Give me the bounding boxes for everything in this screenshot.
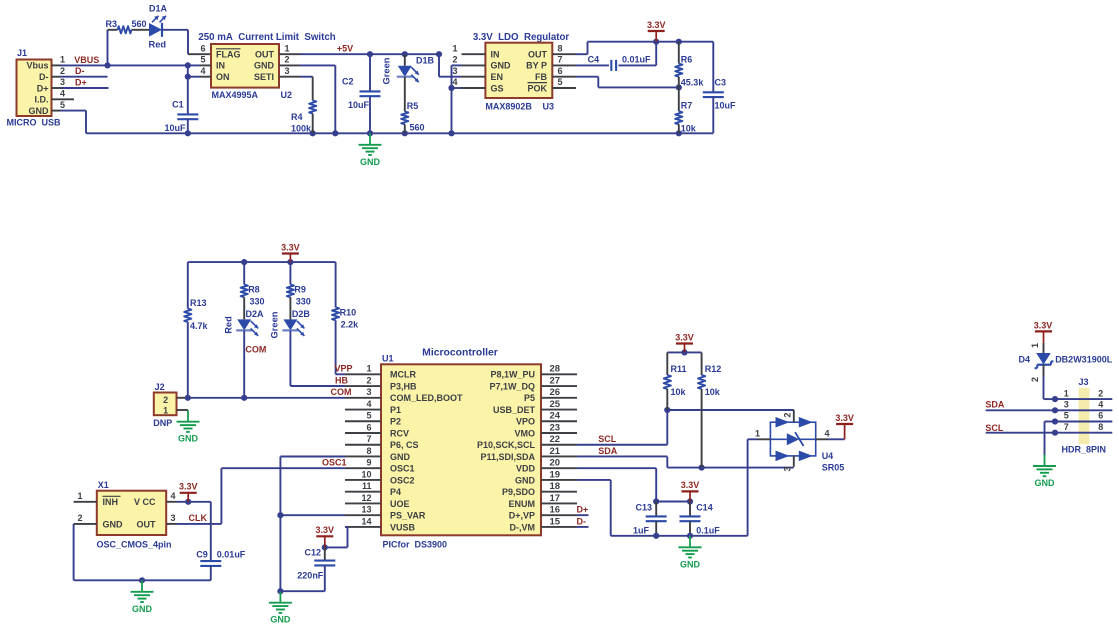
wire U3.FB to R6/R7 divider: [576, 77, 682, 91]
svg-text:2: 2: [60, 66, 65, 76]
TVS diode array U4 SR05: [755, 410, 844, 472]
svg-text:7: 7: [557, 55, 562, 65]
svg-text:11: 11: [362, 481, 372, 491]
capacitor C9 0.01uF: [196, 502, 246, 581]
svg-text:13: 13: [361, 505, 371, 515]
capacitor C1 10uF: [164, 100, 198, 134]
power 3.3V at LDO output: [647, 20, 666, 42]
svg-text:C1: C1: [172, 100, 184, 110]
wire D2B cathode to U1 pin2: [290, 331, 345, 387]
wire D- net: [61, 76, 108, 78]
svg-text:BY P: BY P: [526, 61, 547, 71]
svg-text:5: 5: [200, 55, 205, 65]
wire R10 to U1 pin1: [336, 373, 345, 375]
svg-text:12: 12: [361, 493, 371, 503]
svg-text:5: 5: [1064, 411, 1069, 421]
title Microcontroller: [422, 348, 498, 359]
svg-text:3: 3: [284, 66, 289, 76]
svg-text:R6: R6: [681, 55, 693, 65]
svg-text:560: 560: [410, 123, 425, 133]
resistor R5 560: [401, 101, 424, 133]
wire D+ net: [61, 87, 109, 89]
svg-text:26: 26: [550, 387, 561, 398]
net label SDA: [598, 446, 618, 456]
svg-text:28: 28: [550, 364, 561, 375]
svg-text:D2A: D2A: [246, 309, 265, 319]
svg-text:7: 7: [366, 434, 371, 444]
wire SDA to J3 pin3: [986, 409, 1055, 411]
svg-text:P9,SDO: P9,SDO: [502, 487, 535, 497]
svg-text:DNP: DNP: [153, 418, 172, 428]
svg-text:D1A: D1A: [149, 4, 168, 14]
svg-text:MAX4995A: MAX4995A: [212, 90, 259, 100]
wire U4 pin1 to GND rail: [748, 439, 758, 536]
svg-text:2.2k: 2.2k: [341, 320, 360, 330]
svg-text:ON: ON: [216, 72, 230, 82]
svg-text:3: 3: [60, 77, 65, 87]
svg-text:C12: C12: [304, 547, 321, 557]
svg-text:5: 5: [60, 100, 65, 110]
svg-text:SCL: SCL: [598, 434, 617, 444]
svg-text:22: 22: [550, 434, 561, 445]
svg-text:1: 1: [60, 55, 65, 65]
svg-text:6: 6: [557, 66, 562, 76]
capacitor C4 0.01uF: [588, 55, 651, 71]
wire SCL to J3 pin7: [986, 432, 1055, 434]
power 3.3V at D4: [1034, 321, 1053, 343]
net label SCL at J3: [985, 423, 1004, 433]
svg-text:C4: C4: [588, 55, 600, 65]
svg-text:10k: 10k: [671, 387, 687, 397]
wire U4 pin4 to 3.3V: [828, 438, 845, 440]
svg-text:4: 4: [1098, 400, 1103, 410]
svg-text:19: 19: [550, 469, 561, 480]
svg-text:3.3V: 3.3V: [681, 480, 700, 490]
svg-text:C3: C3: [715, 77, 727, 87]
svg-text:MICRO USB: MICRO USB: [7, 118, 62, 128]
svg-text:I.D.: I.D.: [34, 95, 48, 105]
svg-text:6: 6: [1098, 411, 1103, 421]
svg-text:OUT: OUT: [528, 50, 548, 60]
wire COM rail J2.2 to U1 pin3: [185, 395, 345, 401]
wire D1B to R5: [404, 77, 406, 112]
svg-text:J3: J3: [1078, 377, 1088, 387]
wire IN/ON junction vertical to C1: [185, 65, 200, 114]
svg-text:INH: INH: [103, 497, 119, 507]
svg-text:SETI: SETI: [254, 72, 274, 82]
svg-text:1: 1: [77, 491, 82, 501]
svg-text:J2: J2: [155, 382, 165, 392]
svg-text:Green: Green: [270, 311, 280, 338]
wire U1 pin13 PS_VAR: [280, 514, 345, 516]
svg-text:330: 330: [250, 296, 265, 306]
svg-text:U1: U1: [382, 354, 394, 364]
svg-text:P1: P1: [390, 405, 401, 415]
svg-text:1uF: 1uF: [633, 526, 650, 536]
wire U1.VUSB pin14 to C12: [322, 527, 348, 551]
svg-text:23: 23: [550, 422, 561, 433]
svg-text:OSC1: OSC1: [390, 464, 415, 474]
svg-text:C9: C9: [196, 549, 208, 559]
svg-text:1: 1: [1064, 388, 1069, 398]
svg-text:VUSB: VUSB: [390, 522, 416, 532]
wire U3.GND and U3.GS to rail: [448, 65, 461, 136]
svg-text:VPO: VPO: [516, 417, 535, 427]
LED D2B Green: [270, 297, 311, 338]
svg-text:ENUM: ENUM: [509, 499, 536, 509]
svg-text:UOE: UOE: [390, 499, 410, 509]
svg-text:P7,1W_DQ: P7,1W_DQ: [489, 381, 535, 391]
svg-text:15: 15: [550, 516, 561, 527]
svg-text:COM: COM: [245, 344, 266, 354]
svg-text:1: 1: [163, 406, 168, 416]
svg-text:3.3V: 3.3V: [647, 20, 666, 30]
svg-text:D+: D+: [37, 83, 49, 93]
svg-text:Vbus: Vbus: [26, 61, 48, 71]
wire X1.GND to bottom rail: [74, 524, 211, 584]
resistor R10 2.2k: [332, 262, 359, 374]
svg-text:P5: P5: [524, 393, 535, 403]
svg-text:8: 8: [557, 43, 562, 53]
svg-text:OUT: OUT: [255, 50, 275, 60]
LED D1A Red: [149, 4, 168, 50]
svg-text:Red: Red: [224, 316, 234, 334]
svg-text:P4: P4: [390, 487, 401, 497]
svg-text:4: 4: [366, 399, 371, 409]
svg-text:45.3k: 45.3k: [681, 77, 705, 87]
power 3.3V at pullups: [675, 332, 694, 352]
svg-text:GND: GND: [390, 452, 411, 462]
svg-text:P3,HB: P3,HB: [390, 381, 417, 391]
svg-text:2: 2: [1098, 388, 1103, 398]
resistor R6 45.3k: [675, 42, 704, 88]
net label D+: [75, 78, 87, 88]
microcontroller U1 PICfor DS3900: [345, 354, 577, 550]
wire U2.GND to rail: [300, 65, 336, 133]
svg-text:3: 3: [783, 466, 793, 471]
svg-text:3.3V: 3.3V: [179, 482, 198, 492]
svg-text:2: 2: [163, 395, 168, 405]
svg-text:GND: GND: [132, 604, 153, 614]
ground below X1: [131, 580, 154, 614]
svg-text:+5V: +5V: [337, 44, 353, 54]
svg-text:P8,1W_PU: P8,1W_PU: [490, 370, 535, 380]
svg-text:4: 4: [824, 429, 829, 439]
svg-text:4: 4: [200, 66, 205, 76]
svg-text:VMO: VMO: [514, 428, 535, 438]
svg-text:10uF: 10uF: [164, 123, 186, 133]
wire U1.VDD pin20 to C13: [577, 468, 656, 501]
net label COM: [331, 387, 352, 397]
svg-text:IN: IN: [216, 61, 225, 71]
svg-text:3: 3: [1064, 400, 1069, 410]
resistor R8 330: [241, 262, 265, 306]
svg-text:R12: R12: [705, 364, 722, 374]
svg-text:Green: Green: [382, 57, 392, 84]
svg-text:2: 2: [284, 55, 289, 65]
net label SDA at J3: [985, 400, 1005, 410]
svg-text:Microcontroller: Microcontroller: [422, 348, 498, 359]
svg-text:PS_VAR: PS_VAR: [390, 511, 426, 521]
svg-text:8: 8: [366, 446, 371, 456]
svg-text:OUT: OUT: [137, 519, 157, 529]
svg-text:24: 24: [550, 411, 561, 422]
svg-text:R7: R7: [681, 101, 693, 111]
svg-text:MCLR: MCLR: [390, 370, 416, 380]
svg-text:0.1uF: 0.1uF: [696, 526, 720, 536]
resistor R9 330: [287, 262, 311, 306]
svg-text:1: 1: [755, 429, 760, 439]
svg-text:CLK: CLK: [189, 513, 208, 523]
svg-text:16: 16: [550, 505, 561, 516]
svg-text:14: 14: [361, 516, 371, 526]
svg-text:USB_DET: USB_DET: [493, 405, 536, 415]
svg-text:GND: GND: [270, 615, 291, 625]
svg-text:17: 17: [550, 493, 561, 504]
svg-text:GND: GND: [515, 475, 536, 485]
svg-text:MAX8902B: MAX8902B: [485, 101, 532, 111]
power 3.3V at C14: [681, 480, 700, 501]
svg-text:D2B: D2B: [292, 309, 311, 319]
svg-text:27: 27: [550, 375, 561, 386]
svg-text:D+,VP: D+,VP: [509, 511, 535, 521]
net label D-: [75, 66, 85, 76]
svg-text:VBUS: VBUS: [74, 55, 99, 65]
svg-text:0.01uF: 0.01uF: [217, 549, 246, 559]
svg-text:D+: D+: [75, 78, 87, 88]
svg-text:P6, CS: P6, CS: [390, 440, 419, 450]
svg-text:1: 1: [366, 364, 371, 374]
wire D2A cathode to COM rail: [243, 331, 245, 398]
svg-text:2: 2: [452, 55, 457, 65]
svg-text:5: 5: [557, 77, 562, 87]
svg-text:D-: D-: [577, 516, 587, 526]
svg-text:C13: C13: [635, 502, 652, 512]
header J3 HDR_8PIN: [1055, 377, 1112, 454]
svg-text:1: 1: [284, 43, 289, 53]
svg-text:RCV: RCV: [390, 428, 409, 438]
net label CLK: [189, 513, 208, 523]
svg-text:2: 2: [783, 412, 793, 417]
ground below C2: [359, 133, 382, 167]
svg-text:J1: J1: [17, 48, 27, 58]
wire C4 to 3.3V rail: [619, 42, 657, 66]
svg-text:HB: HB: [335, 375, 348, 385]
net label COM at D2A: [245, 344, 266, 354]
svg-text:D+: D+: [577, 505, 589, 515]
svg-text:OSC2: OSC2: [390, 475, 415, 485]
connector J1 MICRO USB: [7, 48, 75, 128]
svg-text:1: 1: [1030, 343, 1040, 348]
svg-text:10uF: 10uF: [348, 100, 370, 110]
svg-text:VPP: VPP: [334, 364, 352, 374]
svg-text:3: 3: [170, 513, 175, 523]
net label OSC1: [322, 458, 347, 468]
svg-text:100k: 100k: [291, 124, 312, 134]
wire 3.3V rail above R11 R12: [667, 349, 701, 355]
svg-text:FLAG: FLAG: [216, 50, 241, 60]
svg-text:U4: U4: [822, 451, 834, 461]
diode D4 DB2W31900L: [1018, 343, 1112, 382]
wire U2.SETI to R4: [300, 77, 313, 101]
svg-text:20: 20: [550, 458, 561, 469]
capacitor C14 0.1uF: [680, 502, 721, 536]
svg-text:P10,SCK,SCL: P10,SCK,SCL: [477, 440, 536, 450]
svg-text:Red: Red: [149, 40, 167, 50]
svg-text:POK: POK: [527, 83, 547, 93]
capacitor C13 1uF: [633, 502, 667, 536]
svg-text:3.3V: 3.3V: [281, 242, 300, 252]
net label VPP: [334, 364, 352, 374]
wire U1.GND pin8 to ground column: [277, 457, 345, 595]
svg-text:X1: X1: [98, 480, 109, 490]
wire J3 pin5 to ground: [1045, 422, 1056, 457]
svg-text:2: 2: [1030, 377, 1040, 382]
svg-text:C2: C2: [342, 77, 354, 87]
power 3.3V at VUSB: [316, 525, 335, 547]
svg-text:3.3V: 3.3V: [1034, 321, 1053, 331]
svg-text:COM: COM: [331, 387, 352, 397]
svg-text:GND: GND: [178, 434, 199, 444]
svg-text:D-: D-: [39, 72, 49, 82]
junction dots at J3 left pins: [1052, 407, 1058, 436]
wire +5V rail U2.OUT to U3.IN: [300, 51, 462, 77]
svg-text:10uF: 10uF: [715, 101, 737, 111]
svg-text:6: 6: [366, 422, 371, 432]
svg-text:SCL: SCL: [985, 423, 1004, 433]
svg-text:3.3V: 3.3V: [835, 413, 854, 423]
svg-text:HDR_8PIN: HDR_8PIN: [1062, 444, 1107, 454]
net label HB: [335, 375, 348, 385]
wire U3.BYP to C4: [576, 64, 609, 66]
svg-text:OSC_CMOS_4pin: OSC_CMOS_4pin: [97, 540, 172, 550]
svg-text:3.3V LDO Regulator: 3.3V LDO Regulator: [473, 32, 570, 43]
svg-text:DB2W31900L: DB2W31900L: [1055, 354, 1113, 364]
svg-text:SR05: SR05: [822, 462, 845, 472]
svg-text:250 mA Current Limit Switch: 250 mA Current Limit Switch: [198, 32, 335, 43]
svg-text:U3: U3: [543, 101, 555, 111]
resistor R13 4.7k: [184, 262, 208, 398]
svg-text:10: 10: [361, 469, 371, 479]
svg-text:R13: R13: [190, 298, 207, 308]
svg-text:P2: P2: [390, 417, 401, 427]
net label SCL: [598, 434, 617, 444]
wire X1.VCC to C9: [177, 499, 211, 505]
wire C13 C14 top rail: [653, 498, 693, 504]
svg-text:220nF: 220nF: [297, 571, 324, 581]
svg-text:R5: R5: [407, 101, 419, 111]
svg-text:560: 560: [132, 19, 147, 29]
svg-text:GND: GND: [360, 157, 381, 167]
resistor R4 100k: [291, 101, 316, 134]
resistor R12 10k: [698, 352, 721, 467]
power 3.3V at U4 pin4: [835, 413, 854, 440]
svg-text:R4: R4: [291, 112, 303, 122]
title 3.3V LDO Regulator: [473, 32, 570, 43]
svg-text:10k: 10k: [705, 387, 721, 397]
ground below C12 column: [269, 591, 292, 625]
net label +5V: [337, 44, 353, 54]
svg-text:8: 8: [1098, 422, 1103, 432]
svg-text:R3: R3: [105, 19, 117, 29]
svg-text:3: 3: [452, 66, 457, 76]
svg-text:PICfor DS3900: PICfor DS3900: [383, 539, 448, 549]
svg-text:21: 21: [550, 446, 561, 457]
resistor R3 560: [105, 19, 146, 33]
svg-text:V CC: V CC: [134, 497, 156, 507]
svg-text:R11: R11: [671, 364, 687, 374]
svg-text:GS: GS: [491, 83, 504, 93]
net label VBUS: [74, 55, 99, 65]
svg-text:D-,VM: D-,VM: [510, 522, 536, 532]
svg-text:4.7k: 4.7k: [190, 321, 209, 331]
LED D1B Green with resistor R5 branch: [404, 54, 406, 65]
svg-text:SDA: SDA: [985, 400, 1005, 410]
wire U1.GND pin19 to C13/C14 bottom rail: [577, 480, 748, 539]
capacitor C3 10uF: [703, 42, 736, 134]
svg-text:IN: IN: [491, 50, 500, 60]
wire D4 to J3 pin1: [1044, 377, 1059, 403]
svg-text:GND: GND: [103, 519, 124, 529]
svg-text:C14: C14: [696, 502, 713, 512]
wire U3.OUT to 3.3V top rail: [576, 39, 713, 55]
svg-text:1: 1: [452, 43, 457, 53]
svg-text:2: 2: [77, 513, 82, 523]
svg-text:FB: FB: [535, 72, 547, 82]
wire J1.5 GND to bottom rail: [61, 111, 87, 134]
svg-text:3.3V: 3.3V: [675, 332, 694, 342]
svg-text:P11,SDI,SDA: P11,SDI,SDA: [480, 452, 535, 462]
svg-text:3.3V: 3.3V: [316, 525, 335, 535]
connector J2 DNP: [153, 382, 188, 428]
svg-text:OSC1: OSC1: [322, 458, 347, 468]
svg-text:4: 4: [60, 89, 65, 99]
wire CLK X1.OUT to U1.OSC1: [177, 468, 345, 524]
svg-text:3: 3: [366, 387, 371, 397]
svg-text:D-: D-: [75, 66, 85, 76]
svg-text:9: 9: [366, 458, 371, 468]
svg-text:D1B: D1B: [416, 55, 435, 65]
svg-text:GND: GND: [680, 559, 701, 569]
svg-text:D4: D4: [1018, 354, 1030, 364]
svg-text:GND: GND: [254, 61, 275, 71]
oscillator X1 OSC_CMOS_4pin: [74, 480, 177, 550]
capacitor C2 10uF: [342, 54, 381, 133]
svg-text:GND: GND: [491, 61, 512, 71]
wire 3.3V rail above LEDs: [188, 259, 336, 265]
wire VBUS net J1.1 to U2.IN: [61, 62, 200, 68]
svg-text:5: 5: [366, 411, 371, 421]
resistor R11 10k: [664, 352, 687, 410]
wire D1A to U2.FLAG: [161, 30, 211, 54]
svg-text:SDA: SDA: [598, 446, 618, 456]
svg-text:R10: R10: [340, 308, 357, 318]
svg-text:330: 330: [296, 296, 311, 306]
current limit switch U2 MAX4995A: [200, 43, 300, 99]
svg-text:COM_LED,BOOT: COM_LED,BOOT: [390, 393, 463, 403]
ground below C14: [679, 536, 702, 570]
LED D1B Green: [382, 55, 435, 84]
svg-text:0.01uF: 0.01uF: [622, 55, 651, 65]
resistor R7 10k: [675, 87, 697, 133]
power 3.3V at X1 VCC: [179, 482, 198, 502]
capacitor C12 220nF: [280, 547, 335, 591]
svg-text:U2: U2: [281, 90, 293, 100]
LED D2A Red: [224, 297, 265, 336]
wire R3 to D1A: [132, 29, 150, 31]
ground at J2 pin1: [177, 410, 200, 444]
power 3.3V at LED rail: [281, 242, 300, 262]
